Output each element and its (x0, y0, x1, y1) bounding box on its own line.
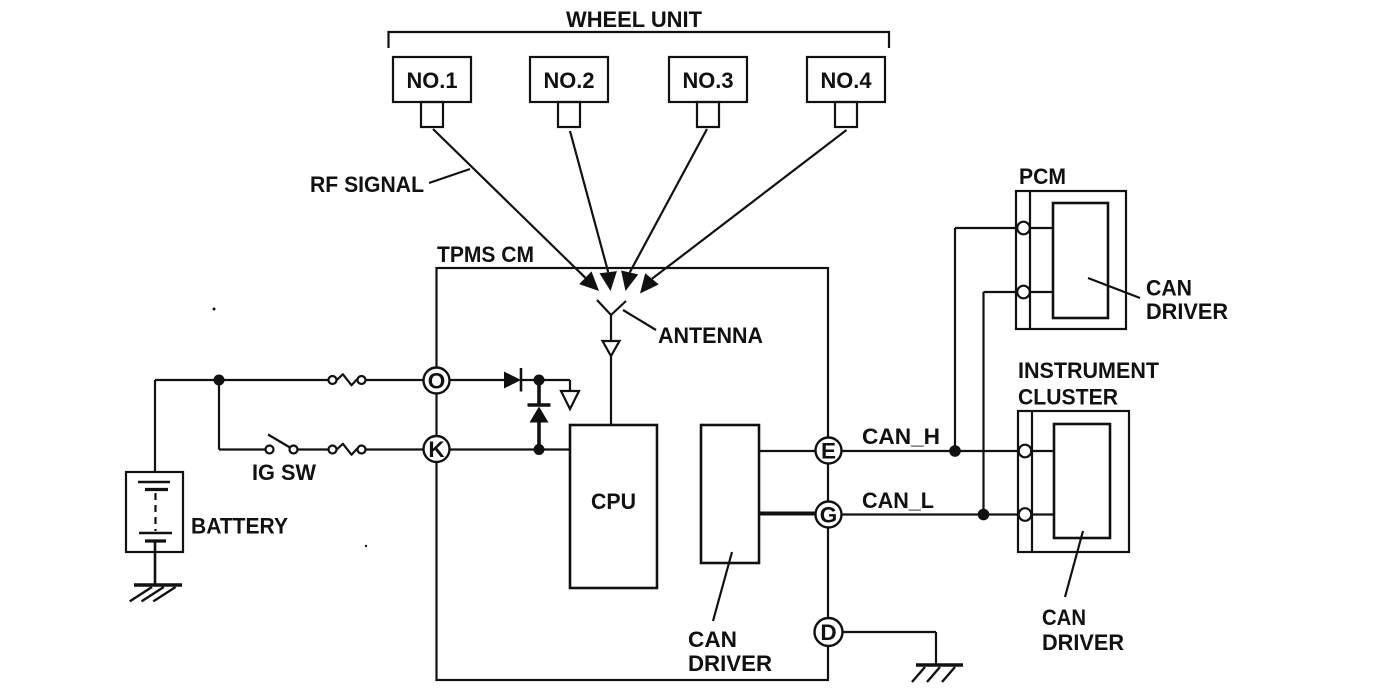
svg-text:E: E (821, 439, 836, 464)
svg-text:CAN: CAN (1042, 605, 1086, 630)
svg-text:CAN_H: CAN_H (862, 424, 940, 449)
svg-text:G: G (820, 503, 838, 528)
svg-text:WHEEL UNIT: WHEEL UNIT (566, 7, 703, 32)
svg-text:CAN: CAN (688, 627, 737, 652)
svg-text:BATTERY: BATTERY (191, 514, 288, 539)
svg-text:NO.2: NO.2 (544, 68, 595, 93)
svg-text:DRIVER: DRIVER (1146, 299, 1228, 324)
svg-text:IG SW: IG SW (252, 460, 316, 485)
svg-text:DRIVER: DRIVER (688, 651, 772, 676)
svg-text:DRIVER: DRIVER (1042, 630, 1124, 655)
svg-text:CLUSTER: CLUSTER (1018, 385, 1118, 410)
svg-text:O: O (428, 369, 446, 394)
svg-text:CAN_L: CAN_L (862, 488, 934, 513)
svg-text:PCM: PCM (1019, 164, 1066, 189)
svg-text:CAN: CAN (1146, 276, 1192, 301)
svg-text:RF SIGNAL: RF SIGNAL (310, 172, 424, 197)
svg-text:INSTRUMENT: INSTRUMENT (1018, 358, 1160, 383)
svg-text:NO.1: NO.1 (407, 68, 458, 93)
svg-text:K: K (428, 437, 445, 462)
svg-text:NO.4: NO.4 (821, 68, 873, 93)
svg-text:NO.3: NO.3 (683, 68, 734, 93)
svg-text:TPMS CM: TPMS CM (437, 242, 534, 267)
svg-text:D: D (820, 620, 836, 645)
svg-text:ANTENNA: ANTENNA (658, 323, 763, 348)
svg-text:CPU: CPU (591, 489, 636, 514)
